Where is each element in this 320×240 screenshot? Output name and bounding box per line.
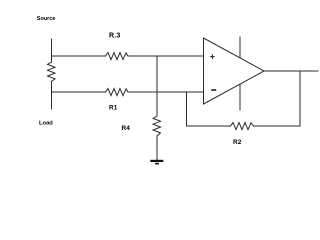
ground xyxy=(150,160,163,165)
op-amp + input marking xyxy=(211,55,215,59)
op-amp - input marking xyxy=(212,89,215,91)
svg-text:R2: R2 xyxy=(233,139,242,146)
svg-text:Load: Load xyxy=(39,120,53,126)
resistor R4 xyxy=(153,116,161,136)
op-amp U1 xyxy=(204,38,265,104)
wire: top wire from R3 to op-amp non-inverting input xyxy=(128,55,204,57)
wire: bottom wire from sense resistor to R1 xyxy=(52,91,106,93)
wire: op-amp output xyxy=(264,70,318,72)
resistor R2 xyxy=(231,123,254,130)
op-amp positive supply pin xyxy=(239,37,241,58)
wire: stub from sense resistor down to Load xyxy=(51,82,53,110)
svg-text:R.3: R.3 xyxy=(109,33,121,40)
svg-text:R1: R1 xyxy=(109,105,118,112)
wire: bottom wire from R1 to op-amp inverting input xyxy=(128,91,204,93)
resistor R3 xyxy=(106,53,129,60)
wire: vertical from node A down to R4 xyxy=(156,56,158,116)
svg-text:R4: R4 xyxy=(122,125,131,132)
op-amp negative supply pin xyxy=(239,85,241,111)
wire: stub from Source down to sense resistor xyxy=(51,39,53,62)
resistor (sense resistor between Source and Load) xyxy=(48,62,56,82)
wire: feedback vertical from output node down xyxy=(299,71,301,126)
wire: feedback vertical up to inverting input node B xyxy=(186,92,188,126)
wire: feedback bottom, output side to R2 xyxy=(254,125,301,127)
resistor R1 xyxy=(106,89,129,96)
wire: top wire from sense resistor to R3 xyxy=(52,55,106,57)
wire: from R4 down to ground xyxy=(156,136,158,160)
svg-text:Source: Source xyxy=(37,16,56,22)
wire: feedback bottom, R2 to inverting node xyxy=(187,125,231,127)
